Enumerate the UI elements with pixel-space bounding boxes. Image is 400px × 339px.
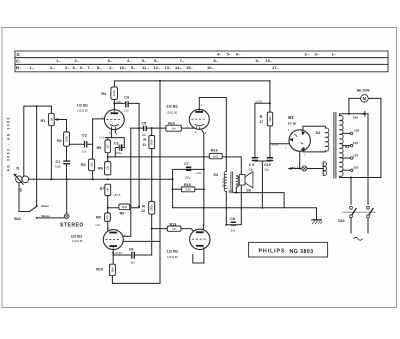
mains tap labels [353,116,360,170]
svg-text:16–: 16– [207,65,214,70]
resistor R14 [166,125,182,131]
svg-text:Sk1: Sk1 [338,219,345,223]
band S row numbers [217,52,337,57]
capacitor C4 [125,101,126,107]
mains tap stubs [342,133,350,170]
wire tube2 cathode vertical W3 [202,130,204,225]
AC tilde [354,237,363,240]
wire tube4 top stub [202,225,204,230]
svg-text:+90: +90 [116,100,121,104]
wire tube2 anode loop [199,98,226,172]
svg-text:C10: C10 [264,163,271,167]
resistor R11 [149,136,155,149]
band C row numbers [56,58,273,63]
svg-text:+34: +34 [95,223,100,227]
svg-text:12101.80: 12101.80 [77,109,88,113]
svg-text:100µ: 100µ [185,176,191,180]
tube1 heater tick [114,130,116,133]
wire anode node to C4 [114,102,139,104]
svg-text:2M2: 2M2 [268,116,272,122]
resistor R1 [49,113,55,125]
capacitor C7 [186,167,191,169]
capacitor C2 [84,141,85,148]
svg-text:3M3: 3M3 [121,205,127,209]
capacitor C8 [231,222,236,224]
resistor R2 [64,132,70,146]
Sk1 mechanical link [342,211,376,213]
wire R16 node down to speaker [240,157,242,175]
svg-text:17–: 17– [272,65,279,70]
svg-text:R5: R5 [97,146,102,150]
transformer bottom rail [340,176,381,204]
svg-text:R16: R16 [211,148,218,152]
band row divider S/C [15,57,388,59]
resistor R7 [105,184,111,195]
svg-text:Sk2: Sk2 [14,217,21,221]
wire tube1 grid to R3 [93,119,105,159]
svg-text:180: 180 [186,188,191,192]
svg-text:220: 220 [353,116,358,120]
svg-text:127: 127 [353,153,358,157]
svg-text:50µ: 50µ [249,167,254,171]
svg-text:C6: C6 [129,248,134,252]
wire speaker bottom to C8 [226,185,241,225]
svg-text:50µ: 50µ [265,167,270,171]
svg-text:C 9: C 9 [249,163,255,167]
B+ rail top [114,81,270,87]
svg-text:S2: S2 [316,130,322,135]
svg-text:5–: 5– [73,65,78,70]
svg-text:R9: R9 [120,211,125,215]
svg-text:S6: S6 [246,188,251,192]
svg-text:10n: 10n [142,133,147,137]
wire tube3 lower pin row H1 [123,240,160,242]
svg-text:R1: R1 [41,119,46,123]
svg-text:100µ: 100µ [116,151,122,155]
transformer S2 HV winding [325,128,329,151]
wire S4 bottom to ground row [225,191,227,225]
svg-text:1/2 B2: 1/2 B2 [71,233,83,238]
svg-text:R: R [260,115,263,119]
svg-text:6–: 6– [236,52,241,57]
resistor R15 [181,187,194,192]
switch Sk2 contact mono [36,205,38,207]
svg-text:12n: 12n [124,108,129,112]
svg-text:12: 12 [141,209,145,213]
stereo annotation node [64,214,69,219]
triode tube 1/2 B2 first [103,230,123,250]
svg-text:56k: 56k [110,267,114,272]
svg-text:9–: 9– [131,65,136,70]
resistor R12 [149,201,155,214]
switch Sk2 lever [29,206,37,212]
band R row numbers [30,65,280,70]
S3 heater winding stub [322,162,324,175]
svg-text:9–: 9– [256,58,261,63]
wire R7 R9 R8 junction [108,196,139,213]
svg-text:R8: R8 [96,215,101,219]
triode tube 1/2 B1 second [189,109,209,130]
resistor R3 [89,159,95,171]
resistor R10 [109,264,115,276]
capacitor C6 [131,252,132,259]
svg-text:C3: C3 [114,141,119,145]
svg-text:160: 160 [354,129,359,133]
svg-text:1/2 B1: 1/2 B1 [166,103,178,108]
wire S5 output row W1 [233,187,284,208]
output transformer S4 primary coil [224,172,226,192]
svg-text:4–: 4– [217,52,222,57]
wire R1 wiper to R2 [55,120,66,132]
svg-text:12101.80: 12101.80 [72,239,83,243]
transformer core lines [334,113,336,179]
arrowhead D connector [14,174,17,177]
wire R4 to tube1 anode [113,99,115,109]
wire C9 C10 supply columns [255,81,270,208]
svg-text:7–: 7– [180,58,185,63]
connector D circle [16,176,23,183]
tube labels [71,102,179,253]
svg-text:7–: 7– [88,65,93,70]
svg-text:STEREO: STEREO [60,222,84,228]
svg-text:R2: R2 [57,139,62,143]
svg-text:R: R [143,138,146,142]
svg-text:1–: 1– [332,52,337,57]
svg-text:12101.80: 12101.80 [167,255,178,259]
svg-text:3–: 3– [65,65,70,70]
svg-text:AE 2009: AE 2009 [357,88,370,92]
svg-text:C5: C5 [141,121,146,125]
PHILIPS type box [249,242,328,257]
resistor R13 [167,226,181,231]
svg-text:S5: S5 [228,190,233,194]
capacitor C1 [63,160,70,161]
svg-text:C:: C: [16,59,21,64]
svg-text:R3: R3 [81,163,86,167]
svg-text:2–: 2– [75,58,80,63]
wire right mains pole [367,114,369,205]
svg-text:R6: R6 [98,167,103,171]
svg-text:Mono: Mono [41,204,49,208]
wire R11-R12 column [113,128,152,255]
svg-text:PHILIPS: PHILIPS [259,249,286,255]
arrowhead heater row [288,167,291,170]
svg-text:100n: 100n [55,164,61,168]
triode tube 1/2 B1 first [104,110,124,130]
tube pin numbers [102,105,306,236]
svg-text:11–: 11– [142,65,149,70]
svg-text:10n: 10n [82,149,87,153]
wire top-left input bus [24,106,52,176]
svg-text:47k: 47k [105,214,109,219]
wire R2 to C2 to grid column [70,143,93,145]
horizontal resistor values [121,127,218,232]
svg-text:D: D [16,166,19,171]
svg-text:S: S [19,188,22,193]
svg-text:11: 11 [142,143,146,147]
svg-text:560k: 560k [150,204,154,210]
svg-text:AD 9015: AD 9015 [222,177,226,188]
svg-text:R15: R15 [184,183,191,187]
wire R1 top drop [50,106,52,113]
svg-text:+19: +19 [196,171,201,175]
connector S circle [22,176,29,183]
wire R13 row [152,229,194,232]
capacitor C9 [252,157,258,159]
ground symbol [312,219,321,221]
svg-text:6–: 6– [142,58,147,63]
top reference band box [15,51,388,72]
wire R10 bottom loop [112,276,160,284]
svg-text:10n: 10n [130,260,135,264]
svg-text:1K: 1K [172,227,176,231]
wire stereo node drop [66,179,68,214]
resistor R8 [105,213,111,221]
svg-text:C1: C1 [56,160,61,164]
wire motor branch [349,98,381,177]
svg-text:2–: 2– [305,52,310,57]
wires below Sk1 [351,218,368,233]
svg-text:+1,2: +1,2 [99,135,105,139]
wire mono switch vertical [36,106,38,205]
wire R1 bottom to ground bus [50,126,52,180]
wire R3 bottom to bus [92,171,94,180]
band row labels [16,52,21,70]
svg-text:+40,5: +40,5 [113,193,121,197]
svg-text:1M2: 1M2 [90,162,94,168]
svg-text:6–: 6– [80,65,85,70]
svg-text:1–: 1– [56,58,61,63]
svg-text:10k: 10k [106,165,110,170]
wire tube1 cathode network [105,129,124,162]
svg-text:S1: S1 [345,144,351,149]
svg-text:Stereo: Stereo [41,214,50,218]
capacitor C5 [143,126,144,131]
capacitor designator labels [56,95,271,251]
svg-text:1/2 B1: 1/2 B1 [77,102,89,107]
rectifier tube B3 EZ80 [289,130,310,151]
svg-text:110: 110 [353,166,358,170]
wire +215 row to B3 [270,143,289,145]
svg-text:12101.80: 12101.80 [166,110,177,114]
capacitor C3 [119,145,120,151]
resistor R9 [119,204,130,210]
svg-text:AG 3063 - AG 3066: AG 3063 - AG 3066 [7,116,11,171]
B+ vertical feeder V4 [159,81,161,284]
svg-text:10–: 10– [120,65,127,70]
svg-text:220k: 220k [112,90,116,96]
svg-text:1–: 1– [30,65,35,70]
ground row W2 [173,208,317,220]
svg-text:680k: 680k [150,139,154,145]
svg-text:1M: 1M [171,127,176,131]
wire tube3 cathode column [112,249,114,265]
triode tube 1/2 B2 second [190,229,210,249]
wire R8 to tube3 top [107,221,109,230]
resistor R4 [111,87,118,99]
wire B3 heater to lamp row [289,152,324,169]
C7/R15 cathode loop [173,169,204,207]
wire R2-C1 column [66,146,68,179]
svg-text:C2: C2 [82,134,87,138]
svg-text:C7: C7 [184,162,189,166]
wire stereo contact row [37,217,65,219]
svg-text:2M2: 2M2 [213,155,219,159]
wire D pin to Sk2 [19,183,29,212]
resistor R16 [209,153,222,158]
svg-text:+0,45: +0,45 [115,251,123,255]
svg-text:2–: 2– [50,65,55,70]
resistor R5 [105,140,110,153]
svg-text:17: 17 [259,120,263,124]
vertical resistor values (rotated) [49,90,272,273]
svg-text:R10: R10 [96,267,103,271]
svg-text:5n6: 5n6 [231,228,236,232]
svg-text:R: R [142,204,145,208]
svg-text:R14: R14 [168,122,176,126]
wire C5 grid row [131,127,195,129]
capacitor value labels [55,108,269,264]
svg-text:12–: 12– [154,65,161,70]
svg-text:C8: C8 [230,217,235,221]
resistor R17 [267,112,272,126]
svg-text:S:: S: [16,52,21,57]
Sk1 levers [352,209,374,216]
svg-text:10–: 10– [266,58,273,63]
svg-text:14–: 14– [175,65,182,70]
feedback row to R16 [108,156,242,158]
band row divider C/R [15,63,388,65]
svg-text:M: M [363,96,367,101]
svg-text:R:: R: [16,65,21,70]
svg-text:+215: +215 [272,143,279,147]
svg-text:8–: 8– [97,65,102,70]
wire V1 C5 node to tube3 grid [123,128,131,236]
svg-text:5–: 5– [154,58,159,63]
svg-text:3–: 3– [108,58,113,63]
speaker S6 [239,175,245,185]
svg-text:8–: 8– [214,58,219,63]
Sk1 contacts [350,206,353,209]
motor AE2009 [361,95,369,103]
ground bus [29,178,173,180]
svg-text:1/2 B2: 1/2 B2 [167,248,179,253]
svg-text:3–: 3– [315,52,320,57]
svg-text:13–: 13– [165,65,172,70]
arrowhead 220 selector [362,112,365,115]
voltage marks [95,100,279,256]
svg-text:EZ 80: EZ 80 [288,121,297,125]
svg-text:4–: 4– [127,58,132,63]
transformer S3 heater winding [323,162,326,176]
wire C4 output vertical to R9 [138,103,140,206]
resistor designator labels [41,92,264,271]
resistor R6 [105,162,111,175]
wire B3 anodes to S2 [303,126,325,152]
svg-text:140: 140 [353,141,358,145]
svg-text:5–: 5– [227,52,232,57]
transformer S1 primary winding [340,116,344,177]
svg-text:NG 3803: NG 3803 [290,249,314,255]
svg-text:2k7: 2k7 [106,144,110,149]
wire tube4 heater U [193,249,204,263]
output transformer S5 secondary coil [236,176,238,187]
svg-text:4–: 4– [109,65,114,70]
wire S5 to speaker [236,177,239,185]
lamp L1 [302,166,307,171]
arrowhead wiper into R1 [55,118,58,121]
output transformer core [231,171,233,191]
svg-text:R13: R13 [170,222,177,226]
svg-text:15–: 15– [186,65,193,70]
svg-text:∿L1: ∿L1 [292,166,299,170]
switch Sk2 contact stereo [36,217,38,219]
capacitor C10 [267,157,273,159]
svg-text:+176: +176 [255,100,262,104]
mains tap terminals [350,132,353,135]
svg-text:B3: B3 [288,115,294,120]
D connector arrow [14,174,23,184]
svg-text:500k: 500k [64,136,68,142]
svg-text:R7: R7 [100,187,105,191]
wire 220 tap row [340,111,368,116]
